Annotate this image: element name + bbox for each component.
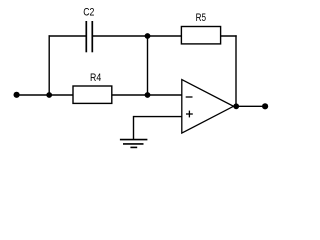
wire R5 right to corner bbox=[221, 35, 237, 37]
wire top-left horizontal (corner to C2 left plate) bbox=[49, 35, 87, 37]
junction node left bbox=[46, 92, 52, 98]
wire left terminal to R4 left bbox=[17, 94, 73, 96]
svg-text:R4: R4 bbox=[90, 72, 101, 84]
wire right vertical (R5 down to output node) bbox=[235, 35, 237, 106]
resistor R5 bbox=[181, 27, 220, 44]
svg-text:C2: C2 bbox=[83, 7, 94, 19]
wire noninverting input down to ground bbox=[133, 116, 135, 140]
wire output node to right terminal bbox=[236, 105, 265, 107]
junction node mid bbox=[145, 92, 151, 98]
capacitor C2 bbox=[86, 21, 92, 52]
wire feedback vertical (top junction to mid junction) bbox=[147, 36, 149, 95]
wire C2 right plate to R5 left bbox=[93, 35, 182, 37]
terminal right bbox=[262, 103, 268, 109]
resistor R4 bbox=[73, 86, 112, 103]
junction node top bbox=[145, 33, 151, 39]
wire op-amp noninverting input horizontal bbox=[134, 116, 182, 118]
wire R4 right to op-amp inverting input bbox=[112, 94, 182, 96]
svg-text:R5: R5 bbox=[196, 12, 206, 24]
ground bbox=[120, 140, 147, 148]
junction node output bbox=[233, 103, 239, 109]
wire left vertical (top corner down to input node) bbox=[48, 35, 50, 95]
op-amp U1 bbox=[182, 80, 234, 134]
terminal left bbox=[14, 92, 20, 98]
